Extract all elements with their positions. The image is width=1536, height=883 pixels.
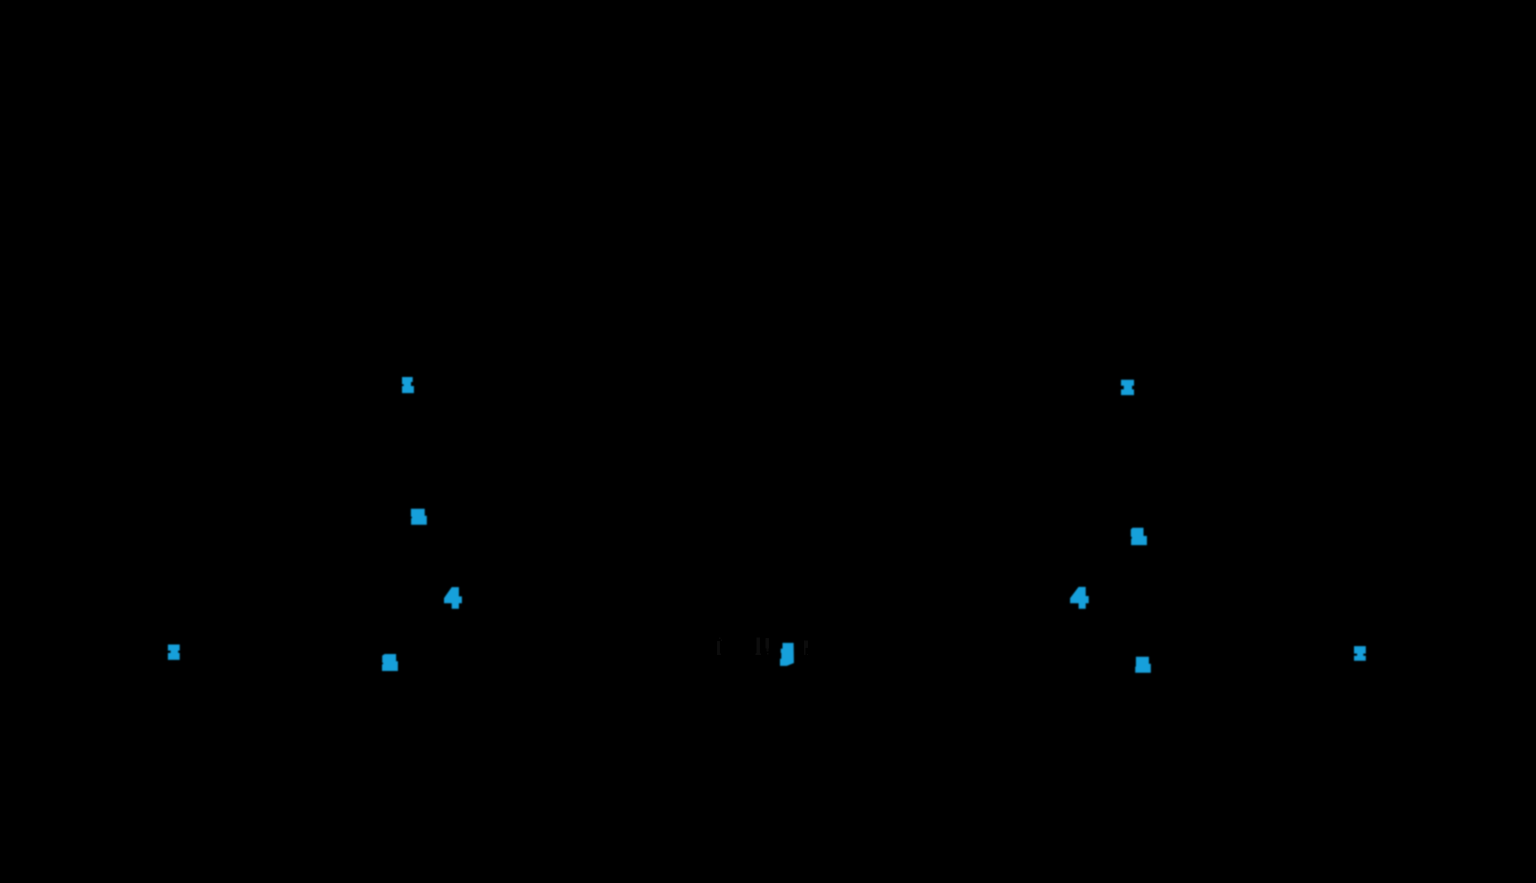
resistor value label 1 (right circuit, top) — [1121, 380, 1134, 395]
unit letter A (faint) — [804, 640, 806, 655]
resistor value label 2 (right circuit, bottom) — [1135, 657, 1151, 673]
resistor value label 1 (left circuit, top) — [402, 377, 414, 393]
source value label 5 (center) — [780, 643, 794, 666]
resistor value label 2 (left circuit, middle) — [411, 509, 427, 525]
resistor value label 2 (right circuit, middle) — [1131, 528, 1147, 545]
resistor value label 1 (left circuit, far left) — [168, 645, 180, 660]
resistor value label 4 (left circuit) — [444, 587, 462, 609]
resistor value label 2 (left circuit, bottom) — [382, 654, 398, 671]
equation digit 1 (faint) — [756, 637, 760, 655]
current label i (faint, black-on-black) — [717, 641, 720, 655]
resistor value label 4 (right circuit) — [1070, 587, 1089, 609]
resistor value label 1 (right circuit, far right) — [1354, 646, 1366, 661]
equation digit 1 partial (faint) — [765, 638, 769, 649]
